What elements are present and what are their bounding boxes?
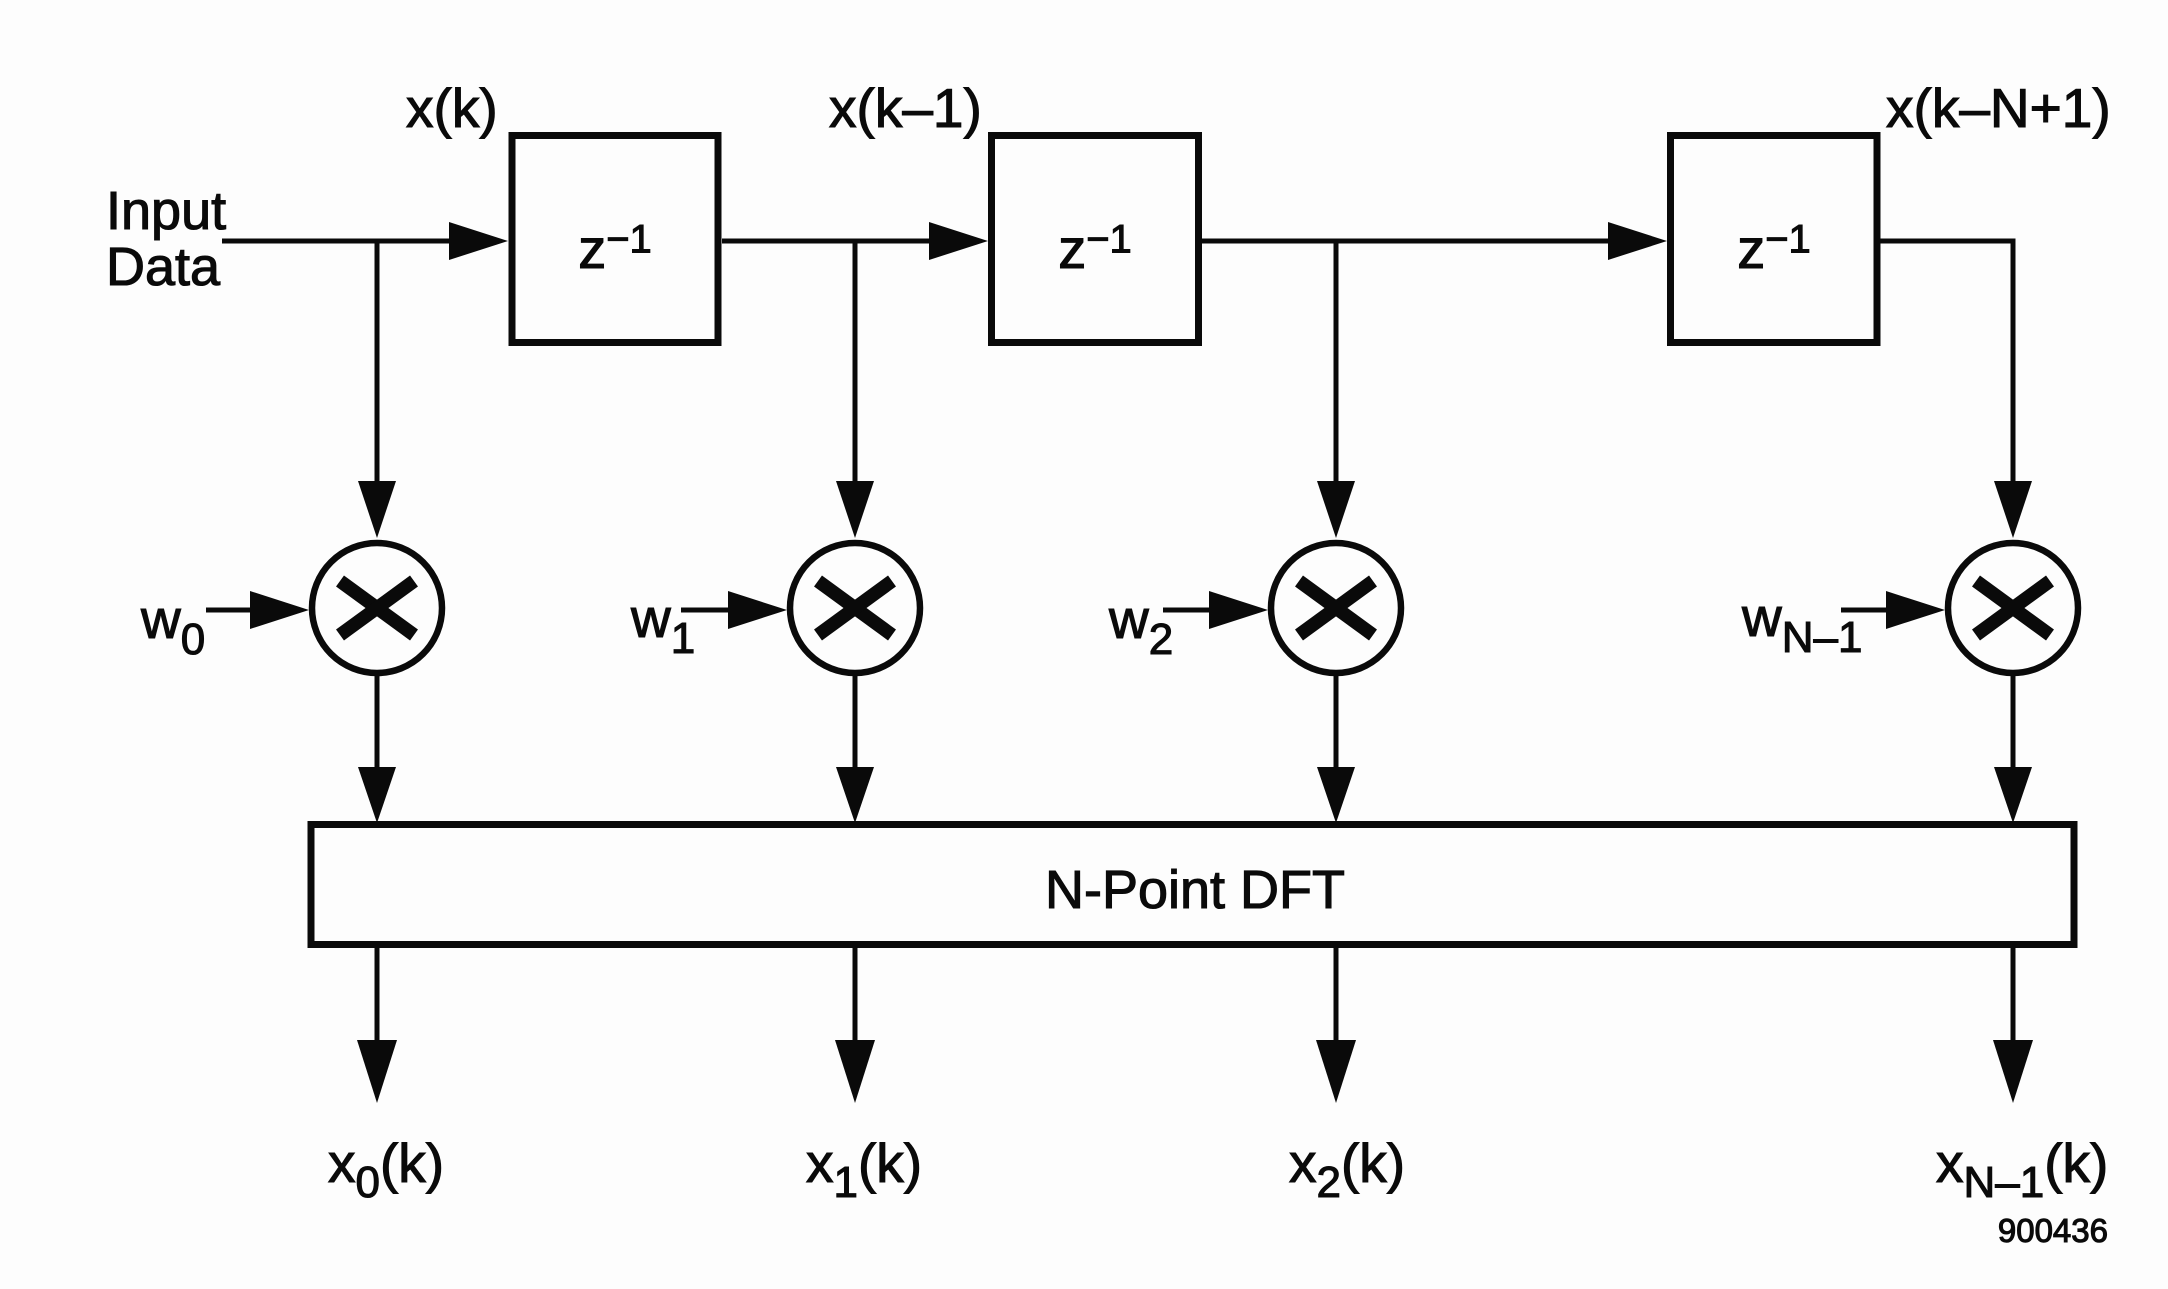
wire: delay block 1 to delay block 2 bbox=[722, 239, 934, 244]
delay block Z1 (z^-1) bbox=[512, 136, 718, 343]
arrowhead into delay block 2 bbox=[929, 222, 988, 260]
svg-text:x(k–N+1): x(k–N+1) bbox=[1886, 77, 2111, 139]
arrowhead output 1 bbox=[835, 1040, 875, 1103]
wire: w1 into multiplier M2 bbox=[681, 608, 735, 613]
svg-text:900436: 900436 bbox=[1998, 1212, 2108, 1249]
arrowhead output 2 bbox=[1316, 1040, 1356, 1103]
svg-text:N-Point DFT: N-Point DFT bbox=[1045, 860, 1345, 920]
arrowhead into multiplier M4 bbox=[1994, 481, 2032, 538]
wire: tap 2 down to multiplier M2 bbox=[853, 241, 858, 484]
arrowhead output 0 bbox=[357, 1040, 397, 1103]
svg-text:Data: Data bbox=[106, 237, 221, 297]
arrowhead into delay block 1 bbox=[449, 222, 508, 260]
wire: wN-1 into multiplier M4 bbox=[1841, 608, 1892, 613]
arrowhead output N-1 bbox=[1993, 1040, 2033, 1103]
arrowhead w1 into multiplier M2 bbox=[728, 591, 787, 629]
wire: multiplier M4 down to DFT bbox=[2011, 676, 2016, 770]
wire: multiplier M3 down to DFT bbox=[1334, 676, 1339, 770]
arrowhead w2 into multiplier M3 bbox=[1209, 591, 1268, 629]
wire: delay block 3 output, corner down to multiplier M4 bbox=[1880, 241, 2013, 484]
wire: w2 into multiplier M3 bbox=[1163, 608, 1215, 613]
arrowhead M1 into DFT bbox=[358, 767, 396, 823]
wire: multiplier M1 down to DFT bbox=[375, 676, 380, 770]
arrowhead M3 into DFT bbox=[1317, 767, 1355, 823]
arrowhead into multiplier M1 bbox=[358, 481, 396, 538]
arrowhead M2 into DFT bbox=[836, 767, 874, 823]
wire: DFT output 2 bbox=[1334, 948, 1339, 1042]
arrowhead w0 into multiplier M1 bbox=[250, 591, 309, 629]
wire: tap 3 down to multiplier M3 bbox=[1334, 241, 1339, 484]
multiplier M2 (circle with X) bbox=[790, 543, 920, 673]
arrowhead into multiplier M2 bbox=[836, 481, 874, 538]
svg-text:Input: Input bbox=[106, 181, 226, 241]
N-Point DFT block bbox=[311, 825, 2074, 945]
wire: DFT output 0 bbox=[375, 948, 380, 1042]
wire: input data to delay block 1 bbox=[222, 239, 455, 244]
arrowhead wN-1 into multiplier M4 bbox=[1886, 591, 1945, 629]
multiplier M3 (circle with X) bbox=[1271, 543, 1401, 673]
wire: tap 1 down from input node to multiplier M1 bbox=[375, 241, 380, 484]
multiplier M1 (circle with X) bbox=[312, 543, 442, 673]
wire: DFT output 1 bbox=[853, 948, 858, 1042]
delay block Z3 (z^-1) bbox=[1671, 136, 1878, 343]
arrowhead into multiplier M3 bbox=[1317, 481, 1355, 538]
arrowhead into delay block 3 bbox=[1608, 222, 1667, 260]
svg-text:x(k–1): x(k–1) bbox=[829, 77, 982, 139]
arrowhead M4 into DFT bbox=[1994, 767, 2032, 823]
wire: multiplier M2 down to DFT bbox=[853, 676, 858, 770]
wire: DFT output N-1 bbox=[2011, 948, 2016, 1042]
wire: w0 into multiplier M1 bbox=[206, 608, 257, 613]
wire: delay block 2 to delay block 3 bbox=[1202, 239, 1613, 244]
delay block Z2 (z^-1) bbox=[992, 136, 1199, 343]
svg-text:x(k): x(k) bbox=[406, 77, 498, 139]
multiplier M4 (circle with X) bbox=[1948, 543, 2078, 673]
